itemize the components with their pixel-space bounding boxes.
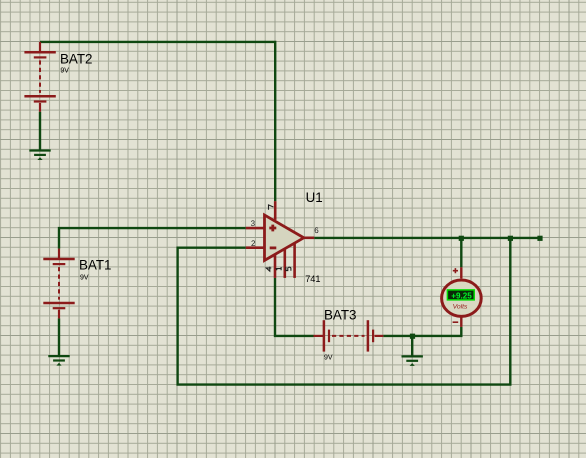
- svg-text:BAT3: BAT3: [324, 308, 357, 323]
- svg-text:2: 2: [251, 239, 256, 248]
- svg-text:741: 741: [305, 274, 320, 284]
- svg-text:U1: U1: [306, 190, 323, 205]
- svg-text:9V: 9V: [324, 355, 333, 362]
- svg-text:+9.25: +9.25: [451, 290, 472, 300]
- svg-text:9V: 9V: [80, 275, 89, 282]
- svg-text:Volts: Volts: [453, 304, 468, 311]
- svg-text:3: 3: [251, 219, 256, 228]
- svg-text:6: 6: [314, 226, 319, 235]
- svg-text:9V: 9V: [60, 68, 69, 75]
- svg-text:BAT2: BAT2: [60, 52, 93, 67]
- svg-text:BAT1: BAT1: [79, 258, 112, 273]
